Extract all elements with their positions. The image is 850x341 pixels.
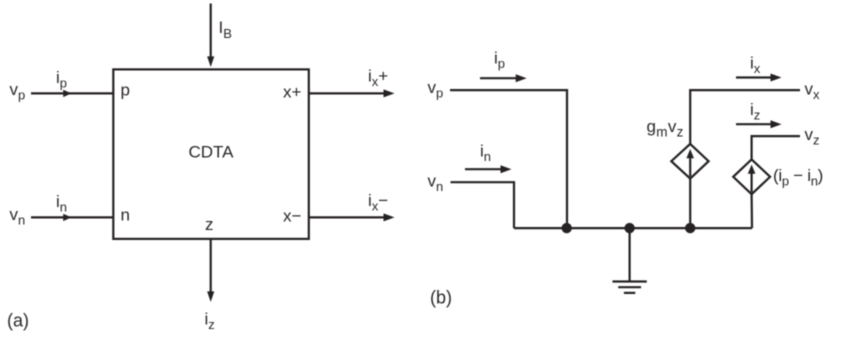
svg-text:CDTA: CDTA xyxy=(188,143,234,162)
svg-text:x+: x+ xyxy=(283,83,302,102)
svg-text:(b): (b) xyxy=(430,288,452,308)
svg-text:p: p xyxy=(121,81,130,100)
svg-text:z: z xyxy=(205,215,214,234)
svg-text:x−: x− xyxy=(283,207,302,226)
svg-text:n: n xyxy=(121,206,130,225)
svg-text:(a): (a) xyxy=(7,311,29,331)
